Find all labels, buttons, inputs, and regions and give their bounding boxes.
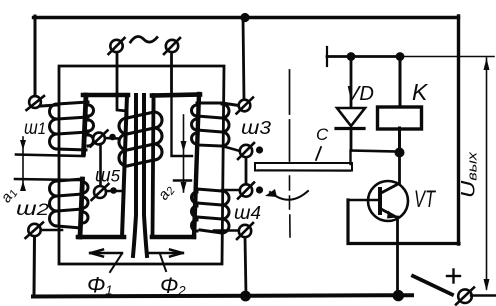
terminal w5 upper <box>91 131 120 187</box>
core 1 gap face upper <box>16 155 84 157</box>
label phi2 leader <box>160 254 166 271</box>
wire terminal column top <box>243 18 244 101</box>
label C leader <box>316 147 321 160</box>
wire w4 top lead <box>222 189 240 192</box>
core 2 gap face lower <box>174 179 191 181</box>
inner box transformer outline <box>59 66 224 264</box>
dimension Uout line <box>486 58 488 289</box>
node w5 upper dot <box>109 134 116 141</box>
symbol plus <box>447 270 460 283</box>
axis dash line <box>289 70 291 161</box>
wire bottom right stub <box>471 294 496 296</box>
svg-text:ш2: ш2 <box>16 199 50 220</box>
core 2 window edge with gap <box>172 95 193 156</box>
terminal w1 left <box>27 96 45 110</box>
wire w2 bottom lead to terminal <box>41 229 62 232</box>
capacitor C vane plate <box>255 163 352 171</box>
core 2 top edge <box>152 95 200 96</box>
wire terminal column bottom <box>245 237 246 295</box>
core 2 left limb <box>153 95 154 237</box>
node w4 polarity dot <box>256 186 263 193</box>
wire right frame edge <box>457 16 460 244</box>
terminal w4 top <box>238 183 254 199</box>
core center limb line 1 <box>133 95 136 256</box>
terminal output plus <box>456 288 474 305</box>
node w3 polarity dot <box>256 146 263 153</box>
wire emitter down <box>396 217 399 295</box>
svg-text:C: C <box>316 125 329 144</box>
dimension a2 arrow <box>183 115 185 192</box>
node w5 lower dot <box>110 187 117 194</box>
dimension a1 arrow <box>22 137 24 190</box>
core 1 top edge <box>83 93 128 98</box>
winding w2 coil <box>50 179 88 228</box>
wire top bus <box>34 16 459 19</box>
core 2 right limb <box>194 94 199 237</box>
wire left bus <box>34 16 37 97</box>
wire ac left lead <box>117 52 127 118</box>
label phi1 leader <box>110 254 122 273</box>
wire terminal column mid <box>245 157 248 184</box>
terminal ac left <box>109 38 125 54</box>
wire diode to collector <box>351 151 398 152</box>
node top bus junction <box>240 13 249 22</box>
svg-text:ш5: ш5 <box>95 166 121 187</box>
winding w4 coil <box>192 189 229 233</box>
terminal w3 bottom <box>238 143 254 159</box>
wire w3 bottom lead <box>222 146 240 151</box>
core 2 bottom edge <box>152 235 194 240</box>
svg-text:ш4: ш4 <box>234 203 261 224</box>
transistor VT <box>368 181 408 221</box>
arrow flux phi2 <box>149 250 183 257</box>
node bottom bus junction left <box>240 291 251 302</box>
diode VD <box>350 56 353 108</box>
node supply dot left <box>347 52 356 61</box>
core 1 bottom edge <box>78 235 124 240</box>
terminal w2 left <box>26 223 44 239</box>
svg-text:ш3: ш3 <box>241 118 271 139</box>
core 1 right limb <box>122 95 127 237</box>
terminal w4 bottom <box>237 223 253 239</box>
wire w4 bottom lead <box>214 229 239 232</box>
core 1 left limb lower <box>80 179 83 237</box>
terminal w3 top <box>237 98 254 114</box>
symbol ac tilde <box>131 37 158 43</box>
relay K coil <box>399 56 402 107</box>
wire supply thin line <box>327 55 401 58</box>
wire base loop <box>348 200 459 244</box>
winding w5 center coil <box>119 112 162 166</box>
node bottom bus junction emitter <box>393 290 404 301</box>
switch blade <box>413 276 452 295</box>
terminal ac right <box>164 38 180 54</box>
arrow rotation arc <box>270 191 308 200</box>
node collector junction <box>395 148 405 158</box>
node supply dot right <box>396 52 405 61</box>
terminal supply tick <box>326 47 328 66</box>
wire bottom bus <box>33 295 412 296</box>
core 1 gap face lower <box>15 179 81 180</box>
core center limb line 2 <box>144 95 147 256</box>
svg-text:K: K <box>412 79 429 105</box>
svg-text:ш1: ш1 <box>24 118 46 139</box>
wire ac right lead <box>154 52 173 112</box>
arrow flux phi1 <box>90 250 122 257</box>
winding w3 coil <box>192 103 239 146</box>
svg-text:VD: VD <box>346 83 374 105</box>
winding w1 coil <box>41 102 94 150</box>
terminal w5 lower <box>92 184 125 200</box>
core 1 left limb upper <box>84 95 87 154</box>
svg-text:VT: VT <box>414 186 437 213</box>
